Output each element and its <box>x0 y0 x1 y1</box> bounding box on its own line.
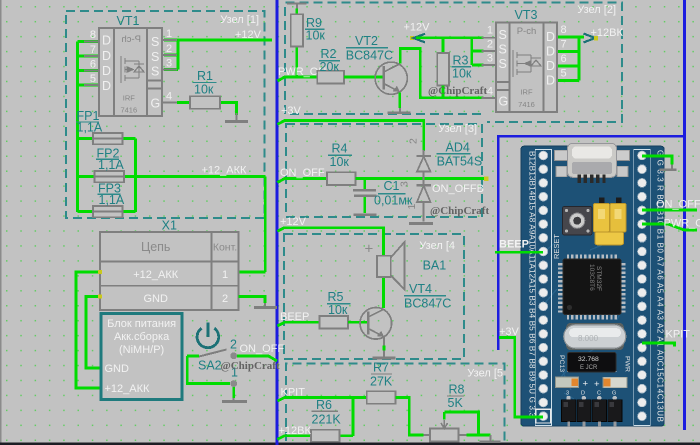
svg-text:D: D <box>546 30 555 44</box>
svg-text:1: 1 <box>406 204 418 210</box>
svg-text:2: 2 <box>230 338 237 352</box>
wire ON_OFFB to board B11 <box>642 209 697 212</box>
wire +12ВК net from VT3 drains <box>558 37 584 81</box>
svg-text:+12_АКК: +12_АКК <box>202 165 248 177</box>
pin numbers VT3 right 8 7 6 5 <box>561 24 567 80</box>
svg-text:SA2: SA2 <box>198 359 222 373</box>
wire R5 to VT4 base <box>348 321 368 324</box>
svg-text:R1: R1 <box>197 69 213 83</box>
svg-text:+: + <box>365 241 374 258</box>
svg-text:D: D <box>546 74 555 88</box>
svg-text:BA1: BA1 <box>423 259 447 273</box>
board RESET button <box>552 207 592 260</box>
svg-text:KPIT: KPIT <box>281 387 306 399</box>
svg-text:8.000: 8.000 <box>578 334 599 343</box>
ground at R1 <box>225 113 248 122</box>
label PWR_ON (board) <box>664 218 700 230</box>
svg-text:Акк.сборка: Акк.сборка <box>114 331 170 343</box>
svg-text:10к: 10к <box>452 67 472 81</box>
svg-text:S: S <box>151 50 159 64</box>
node yellow pin squares X1 <box>98 270 102 299</box>
svg-text:AD4: AD4 <box>446 141 470 155</box>
label PWR_ON <box>278 66 326 78</box>
board silkscreen pin labels <box>528 150 665 422</box>
wire +12_АКК net <box>136 177 266 273</box>
svg-text:@ChipCraft: @ChipCraft <box>221 360 280 372</box>
ground at board G pin <box>660 165 677 170</box>
svg-text:+12V: +12V <box>404 22 431 34</box>
svg-text:R4: R4 <box>332 142 348 156</box>
svg-text:7: 7 <box>90 44 96 56</box>
wire +12V net from VT1 pin 1 <box>164 40 272 70</box>
svg-text:PC13: PC13 <box>558 355 565 372</box>
label +3V (узел 3) <box>281 105 302 117</box>
wire VT1 drain rail to fuses <box>78 42 99 213</box>
speaker BA1 <box>365 241 447 309</box>
node Узел [4] <box>284 234 464 359</box>
svg-text:10к: 10к <box>330 155 350 169</box>
svg-text:VT3: VT3 <box>515 8 538 22</box>
label ON_OFF at SA2 <box>240 343 285 355</box>
wire ON_OFFB net R4 to diode junction <box>356 177 486 180</box>
svg-text:D: D <box>102 34 111 48</box>
fuse FP2 1,1A <box>78 147 136 183</box>
svg-text:G G 3.3 R B11B10 B1 B0 A7 A6 A: G G 3.3 R B11B10 B1 B0 A7 A6 A5 A4 A3 A2… <box>656 150 665 422</box>
wire +3V to board 3.3 pin <box>499 338 543 418</box>
svg-text:GND: GND <box>143 293 168 305</box>
wire KPIT to board A1 <box>642 343 675 347</box>
svg-text:2: 2 <box>408 138 420 144</box>
watermark @ChipCraft 3 <box>221 360 280 372</box>
svg-text:D: D <box>546 45 555 59</box>
svg-text:P-ch: P-ch <box>121 34 141 45</box>
svg-text:PWR: PWR <box>624 356 631 372</box>
node Узел [5] <box>286 364 505 442</box>
svg-text:3: 3 <box>566 391 569 397</box>
capacitor C1 0,01мк <box>353 179 413 213</box>
wire fuse parallel rails <box>134 139 137 213</box>
svg-text:Конт.: Конт. <box>213 242 237 254</box>
svg-text:D: D <box>581 391 585 397</box>
svg-text:7: 7 <box>561 39 567 51</box>
board 4-pin debug header <box>562 391 622 428</box>
wire +12V to R3 and VT3 sources <box>416 38 484 65</box>
label +12V (узел 1) <box>235 29 262 41</box>
wire board G pin to ground <box>642 156 672 165</box>
svg-text:R8: R8 <box>449 383 465 397</box>
connector X1 table <box>100 232 239 310</box>
svg-text:@ChipCraft: @ChipCraft <box>430 205 489 217</box>
ground at X1 <box>254 303 277 308</box>
svg-text:D: D <box>102 49 111 63</box>
board pin holes left and right headers <box>535 150 650 426</box>
svg-text:1,1А: 1,1А <box>77 121 103 135</box>
svg-text:C: C <box>597 391 601 397</box>
svg-text:D: D <box>102 64 111 78</box>
svg-text:IRF: IRF <box>520 88 533 97</box>
pin numbers VT3 left 1 2 3 4 <box>487 25 493 98</box>
svg-text:2: 2 <box>487 39 493 51</box>
resistor R7 27K <box>367 361 396 404</box>
svg-text:VT2: VT2 <box>355 34 378 48</box>
svg-text:6: 6 <box>561 53 567 65</box>
wire BEEP net to R5 <box>277 322 319 326</box>
node label Узел [1] <box>220 14 259 26</box>
label +12ВК (узел 2) <box>591 27 624 39</box>
potentiometer R8 5K <box>424 383 491 442</box>
svg-text:+12_АКК: +12_АКК <box>105 383 151 395</box>
power standby icon <box>197 323 219 348</box>
svg-text:B12B13B14B15 A8 A9A10A11A12A15: B12B13B14B15 A8 A9A10A11A12A15 B3 B4 B5 … <box>528 151 537 418</box>
svg-text:KPIT: KPIT <box>666 329 691 341</box>
resistor R2 20к <box>317 47 344 83</box>
svg-text:4: 4 <box>487 86 493 98</box>
MCU STM32F103 chip <box>558 254 626 319</box>
node +12V arrow connector <box>410 34 425 43</box>
svg-text:221K: 221K <box>312 413 342 427</box>
pin names VT3 S S S G / D D D D <box>499 28 556 109</box>
svg-text:@ChipCraft: @ChipCraft <box>428 85 487 97</box>
svg-text:C1: C1 <box>384 179 400 193</box>
label ON_OFF (узел 3) <box>280 167 325 179</box>
fuse FP1 1,1A <box>76 109 136 144</box>
ground at SA2 <box>222 398 247 402</box>
svg-text:103C8T6: 103C8T6 <box>588 264 595 291</box>
battery pack Блок питания <box>101 314 182 400</box>
wire X1 pin2 GND to ground <box>239 297 265 304</box>
transistor VT2 BC847C <box>346 34 408 94</box>
svg-text:ON_OFF: ON_OFF <box>240 343 285 355</box>
svg-text:10к: 10к <box>194 83 214 97</box>
svg-text:Узел [4: Узел [4 <box>419 240 455 252</box>
svg-text:1: 1 <box>487 25 493 37</box>
wire PWR_ON to board B10 <box>642 224 697 230</box>
label BEEP (board) <box>499 239 529 251</box>
svg-text:R2: R2 <box>321 47 337 61</box>
svg-text:27K: 27K <box>370 375 393 389</box>
resistor R1 10к <box>177 69 237 115</box>
label +12V (узел 4) <box>280 216 307 228</box>
svg-text:3: 3 <box>487 53 493 65</box>
svg-text:Узел [5: Узел [5 <box>467 368 503 380</box>
board micro USB connector <box>555 143 630 183</box>
svg-text:S: S <box>499 57 507 71</box>
svg-text:8: 8 <box>90 29 96 41</box>
node Узел [3] <box>286 124 482 217</box>
svg-text:20к: 20к <box>320 60 340 74</box>
svg-text:BEEP: BEEP <box>499 239 529 251</box>
svg-text:R3: R3 <box>453 54 469 68</box>
watermark @ChipCraft 2 <box>430 205 489 217</box>
label X1 <box>162 219 177 233</box>
svg-text:ON_OFFB: ON_OFFB <box>656 199 700 211</box>
svg-text:+12V: +12V <box>280 216 307 228</box>
node label Узел [5] <box>467 368 503 380</box>
svg-text:+: + <box>594 379 600 390</box>
svg-text:Цепь: Цепь <box>141 240 170 254</box>
label VT3 <box>515 8 538 22</box>
watermark @ChipCraft 1 <box>428 85 487 97</box>
svg-text:ON_OFFB: ON_OFFB <box>432 183 484 195</box>
svg-text:Узел [1]: Узел [1] <box>220 14 259 26</box>
svg-text:8: 8 <box>561 24 567 36</box>
wire ON_OFF net to R4 <box>277 179 327 183</box>
svg-text:+3V: +3V <box>281 105 302 117</box>
svg-text:2: 2 <box>166 43 172 55</box>
board BOOT jumpers <box>594 198 627 245</box>
svg-text:D: D <box>546 59 555 73</box>
svg-text:PWR_ON: PWR_ON <box>664 218 700 230</box>
resistor R9 10к <box>291 9 326 78</box>
pin numbers VT1 left 8 7 6 5 <box>90 29 96 85</box>
svg-text:X1: X1 <box>162 219 177 233</box>
resistor R3 10к <box>437 53 472 98</box>
label ON_OFFB (board) <box>656 199 700 211</box>
svg-text:32.768: 32.768 <box>578 356 599 363</box>
label VT1 <box>117 14 140 28</box>
svg-text:3: 3 <box>166 58 172 70</box>
node Узел [2] <box>285 3 622 123</box>
svg-text:BAT54S: BAT54S <box>437 155 483 169</box>
wire +3V net into узел 3 <box>277 120 423 151</box>
pin names VT1 D D D D / S S S / G <box>102 34 160 111</box>
resistor R4 10к <box>327 142 356 185</box>
svg-text:1: 1 <box>222 269 228 281</box>
svg-text:2: 2 <box>222 293 228 305</box>
pin numbers VT1 right 1 2 3 4 <box>166 28 172 103</box>
wire blue frame around board photo <box>498 136 684 350</box>
ground at R8 <box>480 435 501 442</box>
ground at AD4 <box>409 222 433 225</box>
wire VT2 collector to VT3 gate <box>400 49 483 98</box>
node +12ВК arrow connector <box>584 34 599 43</box>
node label Узел [3] <box>438 123 477 135</box>
wire blue bus line right <box>683 0 686 430</box>
svg-text:R5: R5 <box>328 290 344 304</box>
svg-text:S: S <box>151 35 159 49</box>
svg-text:STM32F: STM32F <box>595 266 602 291</box>
label ON_OFFB (узел 3) <box>432 183 484 195</box>
crystal 8 MHz <box>564 323 626 350</box>
power rail bar at R9 <box>287 4 307 9</box>
svg-text:BEEP: BEEP <box>280 311 309 323</box>
svg-text:Узел [2]: Узел [2] <box>577 4 616 16</box>
svg-text:(NiMH/P): (NiMH/P) <box>119 344 164 356</box>
wire X1 pin1 to battery +12_АКК <box>76 272 101 388</box>
wire X1 pin2 to battery GND <box>86 297 101 369</box>
svg-text:10к: 10к <box>306 29 326 43</box>
wire BEEP to board A11 <box>495 251 543 254</box>
svg-text:RESET: RESET <box>552 234 561 259</box>
resistor R6 221K <box>277 398 353 442</box>
board LEDs PC13 and PWR <box>556 355 631 390</box>
svg-text:5: 5 <box>561 68 567 80</box>
svg-text:7416: 7416 <box>518 100 535 109</box>
svg-text:+12ВК: +12ВК <box>591 27 624 39</box>
svg-text:6: 6 <box>90 59 96 71</box>
label +12_АКК net <box>202 165 248 177</box>
svg-text:+12ВК: +12ВК <box>279 425 312 437</box>
ground at VT2 <box>388 108 411 113</box>
wire PWR_ON net <box>277 77 317 81</box>
svg-text:1,1А: 1,1А <box>98 158 124 172</box>
svg-text:G: G <box>612 391 616 397</box>
STM32 blue pill board photo <box>521 143 665 427</box>
svg-text:P-ch: P-ch <box>517 26 537 37</box>
crystal 32.768 kHz <box>567 352 617 372</box>
node Узел [1] <box>66 11 265 218</box>
svg-text:VT4: VT4 <box>409 282 432 296</box>
svg-text:G: G <box>499 95 509 109</box>
label +12V (узел 2) <box>404 22 431 34</box>
svg-text:S: S <box>499 43 507 57</box>
svg-text:BC847C: BC847C <box>404 297 451 311</box>
svg-text:3: 3 <box>399 181 411 187</box>
svg-text:Блок питания: Блок питания <box>107 318 176 330</box>
wire VT2 emitter to ground <box>398 93 401 109</box>
node yellow square ON_OFFB end <box>484 176 488 180</box>
wire VT4 emitter to ground <box>383 338 385 358</box>
svg-text:R6: R6 <box>316 398 332 412</box>
svg-text:VT1: VT1 <box>117 14 140 28</box>
svg-text:IRF: IRF <box>123 94 136 103</box>
svg-text:S: S <box>151 65 159 79</box>
svg-text:4: 4 <box>166 91 172 103</box>
label BEEP (узел 4) <box>280 311 309 323</box>
svg-text:G: G <box>151 97 161 111</box>
wire R7 to R8 <box>396 398 424 436</box>
wire +12V net to BA1 <box>277 228 383 256</box>
node label Узел [2] <box>577 4 616 16</box>
ground at C1 <box>353 214 376 217</box>
svg-text:7416: 7416 <box>120 106 137 115</box>
label KPIT (узел 5) <box>281 387 306 399</box>
fuse FP3 1,1A <box>78 182 136 218</box>
transistor VT3 IRF7416 <box>482 22 572 112</box>
svg-text:+12V: +12V <box>235 29 262 41</box>
wire KPIT net <box>277 398 366 436</box>
ground at VT4 <box>373 357 396 360</box>
svg-text:BC847C: BC847C <box>346 49 393 63</box>
svg-text:5K: 5K <box>448 396 464 410</box>
svg-text:R7: R7 <box>373 361 389 375</box>
resistor R5 10к <box>320 290 351 329</box>
svg-text:1,1А: 1,1А <box>99 193 125 207</box>
svg-text:Узел [3]: Узел [3] <box>438 123 477 135</box>
node label Узел [4] <box>419 240 455 252</box>
svg-text:5: 5 <box>90 73 96 85</box>
svg-text:D: D <box>102 79 111 93</box>
svg-text:GND: GND <box>105 363 130 375</box>
svg-text:ON_OFF: ON_OFF <box>280 167 325 179</box>
svg-text:E JCR: E JCR <box>580 365 598 371</box>
transistor VT4 BC847C <box>360 282 451 339</box>
svg-text:1: 1 <box>166 28 172 40</box>
label +12ВК (узел 5) <box>279 425 312 437</box>
svg-text:+12_АКК: +12_АКК <box>133 269 179 281</box>
diode AD4 BAT54S <box>399 138 483 222</box>
svg-text:+: + <box>583 379 589 390</box>
label +3V (board) <box>499 326 520 338</box>
transistor VT1 <box>84 28 177 116</box>
wire blue bus line left <box>276 0 279 445</box>
wire R2 to VT2 base <box>344 76 383 79</box>
label KPIT (board) <box>666 329 691 341</box>
svg-text:S: S <box>499 28 507 42</box>
svg-text:10к: 10к <box>328 303 348 317</box>
switch SA2 <box>187 338 277 399</box>
svg-text:+3V: +3V <box>499 326 520 338</box>
